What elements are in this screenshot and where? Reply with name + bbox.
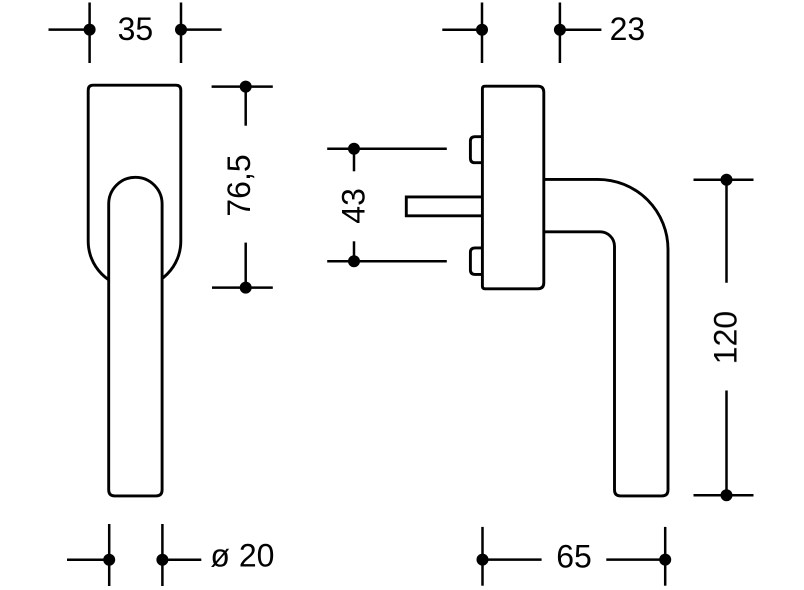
svg-text:43: 43	[336, 188, 372, 224]
svg-text:35: 35	[118, 11, 154, 47]
svg-text:ø 20: ø 20	[210, 538, 274, 574]
svg-text:65: 65	[556, 539, 592, 575]
svg-text:23: 23	[610, 11, 646, 47]
svg-text:120: 120	[708, 311, 744, 364]
svg-text:76,5: 76,5	[221, 154, 257, 216]
